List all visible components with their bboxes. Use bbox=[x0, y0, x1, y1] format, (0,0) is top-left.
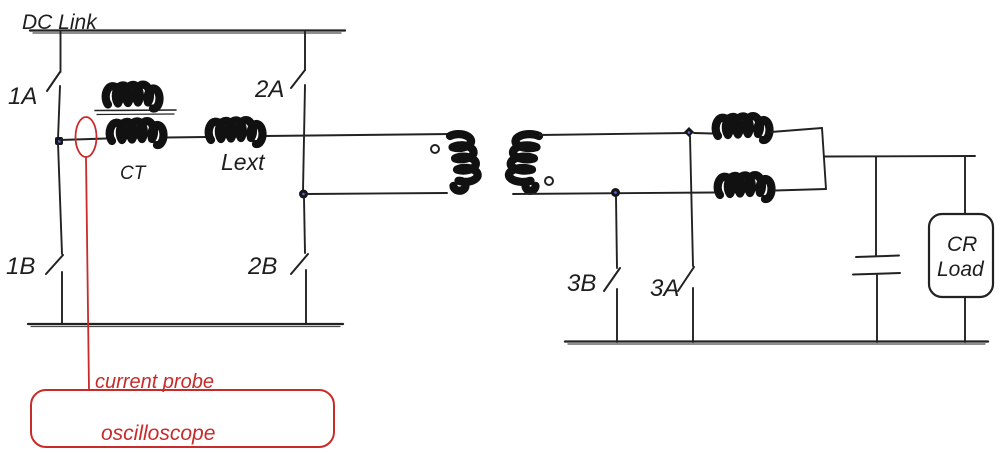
wire right vertical joining coils bbox=[822, 128, 826, 189]
wire leg1 bottom bbox=[61, 272, 63, 324]
wire top coil to corner bbox=[771, 128, 822, 132]
wire 3A bottom bbox=[692, 288, 694, 342]
node junction bottom secondary bbox=[611, 188, 620, 197]
wire leg1 mid bbox=[58, 86, 60, 139]
wire secondary top bbox=[540, 133, 689, 135]
svg-text:3B: 3B bbox=[567, 270, 596, 297]
wire capacitor top lead bbox=[875, 157, 877, 256]
switch 3B blade bbox=[604, 268, 620, 291]
switch 1A blade bbox=[47, 72, 60, 91]
wire bottom coil to corner bbox=[775, 189, 826, 191]
node junction top secondary bbox=[684, 127, 694, 137]
oscilloscope box bbox=[31, 390, 334, 447]
wire primary return bbox=[307, 193, 447, 194]
wire leg2 mid bbox=[303, 85, 305, 191]
inductor output bottom bbox=[718, 175, 772, 199]
wire leg2 bottom bbox=[305, 270, 307, 324]
svg-text:CT: CT bbox=[120, 163, 147, 184]
svg-text:Lext: Lext bbox=[221, 149, 266, 175]
wire CR load bottom lead bbox=[964, 297, 966, 342]
switch 1B blade bbox=[46, 255, 63, 274]
svg-text:Load: Load bbox=[937, 258, 985, 281]
wire leg1 lower bbox=[58, 143, 62, 254]
wire CR load top lead bbox=[964, 157, 966, 214]
resistor CR load box bbox=[929, 214, 993, 297]
wire top DC link rail bbox=[30, 29, 345, 31]
node junction leg2 midpoint bbox=[299, 190, 308, 199]
inductor CT primary winding bbox=[110, 121, 164, 145]
CT core lines bbox=[95, 109, 176, 112]
wire probe lead bbox=[86, 157, 89, 390]
svg-text:2A: 2A bbox=[254, 76, 284, 103]
wire secondary bottom bbox=[513, 193, 714, 195]
capacitor top plate bbox=[856, 256, 899, 258]
node polarity dot primary bbox=[431, 145, 439, 153]
inductor Lext bbox=[209, 120, 263, 144]
svg-text:1B: 1B bbox=[6, 253, 35, 280]
node polarity dot secondary bbox=[545, 177, 553, 185]
switch 2A blade bbox=[291, 70, 305, 88]
svg-text:2B: 2B bbox=[247, 253, 277, 280]
svg-text:3A: 3A bbox=[650, 275, 679, 302]
wire leg2 upper bbox=[304, 32, 306, 70]
wire bottom rail secondary bbox=[565, 340, 988, 342]
wire junction to top coil bbox=[694, 132, 712, 135]
svg-text:oscilloscope: oscilloscope bbox=[101, 422, 215, 445]
wire 3B bottom bbox=[616, 289, 618, 342]
inductor CT secondary winding bbox=[106, 85, 160, 109]
switch 2B blade bbox=[291, 254, 308, 274]
wire main primary horizontal bbox=[60, 139, 106, 141]
wire output horizontal bbox=[824, 155, 975, 158]
svg-text:CR: CR bbox=[947, 233, 977, 256]
current probe loop bbox=[76, 117, 97, 157]
inductor output top bbox=[716, 116, 770, 140]
transformer primary winding bbox=[450, 134, 478, 191]
wire leg1 upper bbox=[60, 32, 62, 72]
transformer secondary winding bbox=[509, 134, 539, 191]
wire switch 3A leg bbox=[690, 136, 693, 266]
capacitor bottom plate bbox=[853, 273, 900, 275]
svg-text:1A: 1A bbox=[8, 83, 37, 110]
wire leg2 lower bbox=[304, 198, 305, 253]
node junction leg1 midpoint bbox=[55, 137, 63, 145]
switch 3A blade bbox=[678, 267, 694, 291]
wire switch 3B leg bbox=[616, 197, 617, 268]
wire bottom rail primary bbox=[28, 323, 343, 325]
wire capacitor bottom lead bbox=[876, 275, 878, 342]
